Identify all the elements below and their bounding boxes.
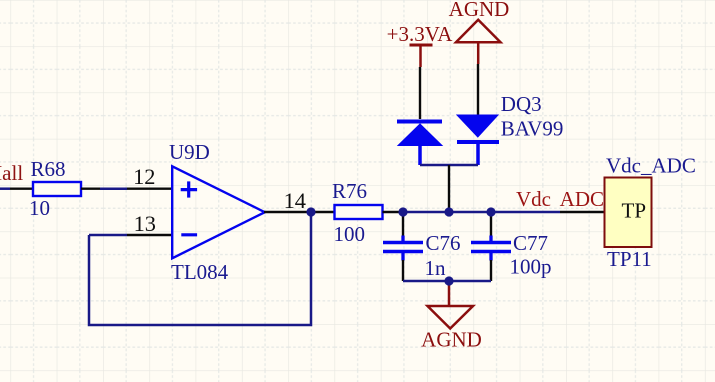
svg-text:ADC: ADC — [560, 187, 604, 211]
wire diode leg down — [448, 165, 450, 212]
svg-text:14: 14 — [284, 188, 306, 213]
junction node at C77 — [486, 207, 495, 216]
wire feedback loop — [89, 212, 311, 325]
svg-text:R68: R68 — [31, 157, 66, 181]
svg-text:BAV99: BAV99 — [501, 117, 564, 141]
pin TP11.1 — [560, 211, 605, 213]
svg-text:1n: 1n — [425, 256, 447, 280]
svg-text:AGND: AGND — [449, 0, 510, 21]
capacitor C76 — [383, 236, 423, 261]
pin R68.2 — [81, 187, 100, 189]
svg-text:100: 100 — [334, 222, 366, 246]
power symbol +3.3VA — [410, 45, 433, 67]
resistor R68 — [33, 182, 81, 196]
pin R68.1 — [10, 187, 33, 189]
wire left input — [0, 187, 10, 190]
pin C77 top — [490, 212, 492, 236]
minus mark — [181, 233, 197, 236]
svg-text:R76: R76 — [332, 179, 367, 203]
power symbol AGND bottom — [428, 306, 474, 329]
wire cap bottoms — [403, 280, 491, 283]
pin R76.1 — [311, 211, 334, 213]
plus mark — [181, 181, 197, 197]
pin C76 bottom — [402, 260, 404, 281]
wire diode common — [420, 164, 478, 166]
svg-text:U9D: U9D — [169, 140, 210, 164]
pin 12 of U9D — [127, 187, 172, 189]
svg-text:12: 12 — [133, 164, 155, 189]
pin R76.2 — [383, 211, 404, 213]
svg-text:Hall: Hall — [0, 161, 23, 185]
svg-text:TL084: TL084 — [171, 260, 229, 284]
svg-text:Vdc_ADC: Vdc_ADC — [606, 154, 696, 178]
junction node at diode leg — [444, 207, 453, 216]
pin D2 anode — [477, 64, 479, 115]
wire to AGND bottom — [448, 281, 451, 305]
svg-text:Vdc: Vdc — [516, 187, 551, 211]
diode D1 (to +3.3VA) — [397, 122, 442, 166]
svg-text:C76: C76 — [426, 231, 461, 255]
pin C77 bottom — [490, 260, 492, 281]
junction node output — [306, 207, 315, 216]
svg-text:+3.3VA: +3.3VA — [387, 22, 454, 46]
junction node at R76 out — [398, 207, 407, 216]
pin C76 top — [402, 212, 404, 236]
svg-text:13: 13 — [134, 211, 156, 236]
svg-text:TP11: TP11 — [607, 247, 652, 271]
resistor R76 — [335, 205, 383, 219]
svg-text:C77: C77 — [513, 231, 548, 255]
op-amp U9D — [172, 166, 265, 258]
svg-text:DQ3: DQ3 — [501, 92, 542, 116]
wire to pin 12 — [100, 187, 127, 190]
svg-text:100p: 100p — [510, 255, 552, 279]
svg-text:AGND: AGND — [421, 327, 482, 351]
diode D2 (to AGND) — [457, 115, 499, 165]
wire main net Vdc_ADC — [403, 211, 560, 214]
pin D1 cathode — [419, 67, 421, 119]
test point TP11 — [605, 178, 652, 248]
pin 14 of U9D — [264, 211, 311, 213]
svg-text:10: 10 — [29, 196, 50, 220]
power symbol AGND top — [456, 20, 501, 64]
svg-text:TP: TP — [622, 198, 647, 222]
pin 13 of U9D — [127, 234, 172, 236]
junction node cap bottom — [444, 276, 453, 285]
wire feedback to pin 13 — [89, 234, 127, 237]
capacitor C77 — [471, 236, 511, 261]
